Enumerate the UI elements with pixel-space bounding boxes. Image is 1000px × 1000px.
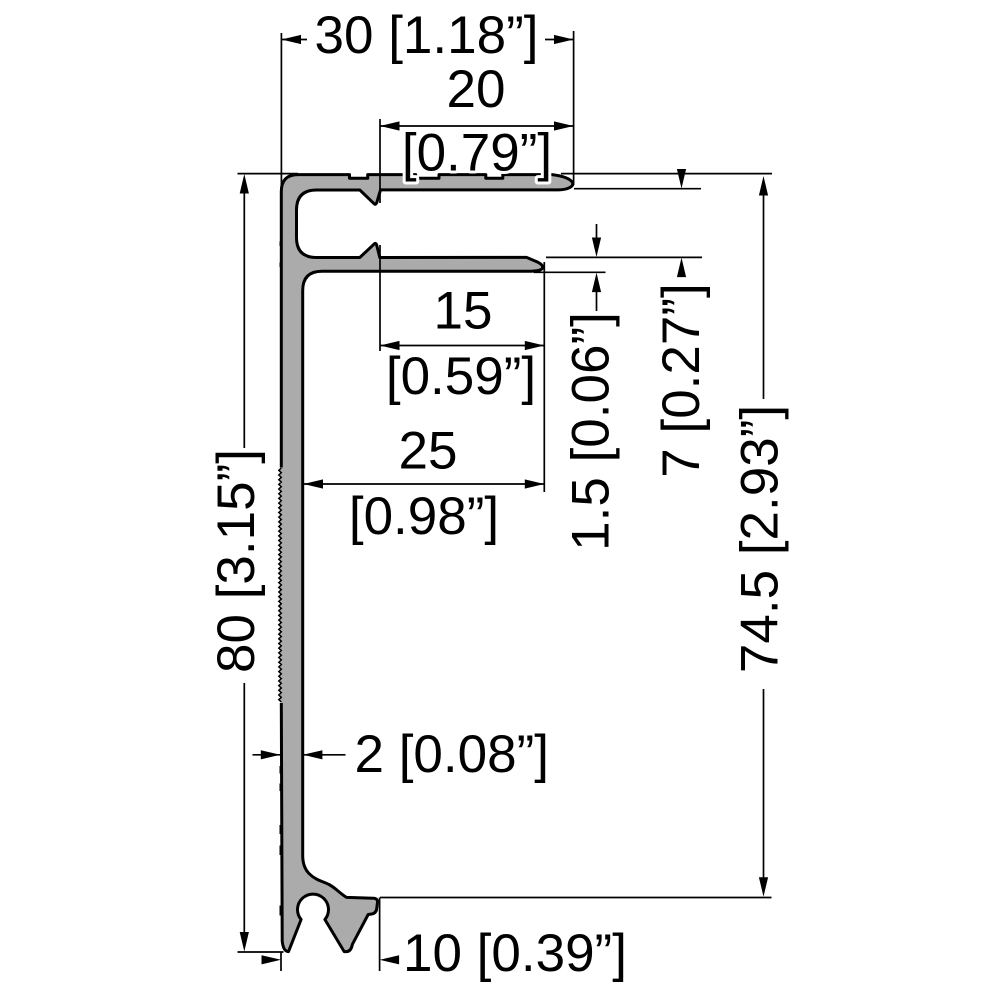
svg-text:15: 15 <box>434 282 493 341</box>
dim 25 [0.98"] line and arrows <box>304 483 545 485</box>
extension line: 2nd flange tip x=544 (for 15/25 dims) <box>543 262 545 492</box>
svg-text:74.5 [2.93”]: 74.5 [2.93”] <box>731 405 790 673</box>
dim 20 [0.79"] line and arrows <box>380 125 574 127</box>
left edge nick marks <box>280 242 283 247</box>
dim 30 [1.18"] line and arrows <box>282 39 308 41</box>
dim 2 [0.08"] arrows <box>253 754 281 756</box>
extension line: 2nd flange underside y=272.3 (for 1.5 dim) <box>534 271 606 273</box>
extension line: tooth x=380 through top flange (for 20 dim) <box>379 119 381 203</box>
svg-text:[0.79”]: [0.79”] <box>402 124 552 183</box>
svg-text:30 [1.18”]: 30 [1.18”] <box>315 6 539 65</box>
extension line: 2nd flange top y=257.4 (for 7 and 1.5 dims) <box>546 256 702 258</box>
extrusion profile cross-section <box>281 175 573 952</box>
svg-text:80 [3.15”]: 80 [3.15”] <box>207 449 266 673</box>
extension line: wall left edge bottom (for 10 dim) <box>280 953 282 972</box>
svg-text:1.5 [0.06”]: 1.5 [0.06”] <box>562 312 621 551</box>
extension line: foot right edge x=379.5 (for 10 dim) <box>379 898 381 972</box>
dim 7 [0.27"] arrowheads <box>677 169 686 189</box>
extension line: foot underside y=897.5 right (for 74.5 dim) <box>380 897 772 899</box>
extension line: top surface level y=173.5 right side (for 74.5 dim) <box>561 173 772 175</box>
serrated (knurled) zone on wall left edge <box>277 468 286 704</box>
extension line: profile bottom y=952 left (for 80 dim) <box>238 951 284 953</box>
dim 80 [3.15"] line and arrows <box>243 192 245 448</box>
svg-text:7 [0.27”]: 7 [0.27”] <box>652 283 711 477</box>
extension line: top flange underside y=188.7 (for 7 dim) <box>574 188 701 190</box>
dim 10 [0.39"] arrows <box>262 955 282 964</box>
dim 1.5 [0.06"] arrows <box>596 224 598 241</box>
svg-text:25: 25 <box>399 422 458 481</box>
extension line: top flange tip (for 30/20 dims) <box>573 31 575 185</box>
extension line: top surface level left side (for 80 dim) <box>238 173 299 175</box>
svg-text:2 [0.08”]: 2 [0.08”] <box>355 725 549 784</box>
svg-text:20: 20 <box>447 60 506 119</box>
dim 15 [0.59"] line and arrows <box>380 345 544 347</box>
svg-text:[0.59”]: [0.59”] <box>386 347 536 406</box>
svg-text:10 [0.39”]: 10 [0.39”] <box>403 924 627 983</box>
extension line: tooth x=380 (for 15 dim) <box>379 245 381 351</box>
extension line: wall left edge, top (for 30 dim) <box>280 33 282 191</box>
dim 74.5 [2.93"] line and arrows <box>763 195 765 399</box>
svg-text:[0.98”]: [0.98”] <box>349 487 499 546</box>
